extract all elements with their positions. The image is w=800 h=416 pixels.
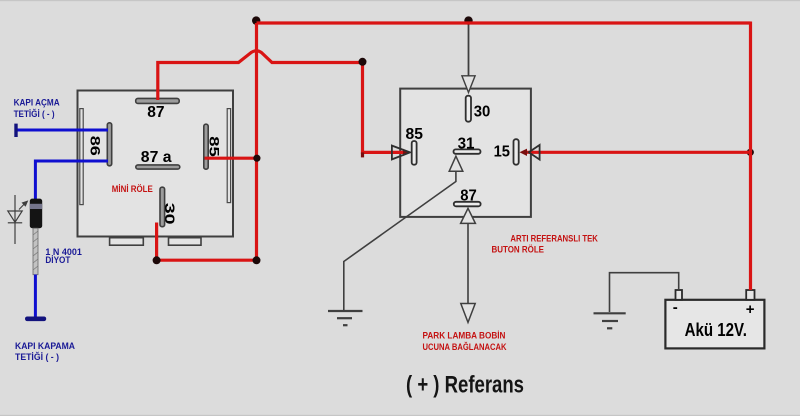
wire: feed line from top bus to K2 pin 30: [468, 23, 470, 82]
svg-text:87: 87: [460, 187, 477, 204]
svg-text:-: -: [673, 299, 678, 316]
junction dot A (top bus left): [252, 16, 260, 24]
arrow to park lamp (down): [461, 304, 475, 323]
arrowhead tip at K2 pin 15: [520, 149, 528, 156]
svg-text:+: +: [746, 301, 755, 318]
relay K1 mounting foot right: [169, 238, 202, 246]
wire: K2 pin 87 down to park lamp arrow: [467, 223, 469, 303]
junction dot F (30 loop left): [153, 256, 161, 264]
label diode: [45, 247, 82, 266]
relay K1 mounting foot left: [110, 238, 144, 246]
relay K1 right inner slot: [227, 109, 230, 203]
wire: red vertical trunk: [255, 23, 258, 260]
relay K1 pin 87 bar: [136, 98, 180, 103]
svg-text:85: 85: [406, 126, 423, 143]
wire: blue door-open trigger: [16, 129, 108, 132]
relay K1 pin 87a bar: [136, 165, 180, 169]
svg-text:KAPI KAPAMA: KAPI KAPAMA: [15, 341, 75, 352]
label park lamp: [423, 331, 507, 353]
svg-text:15: 15: [494, 144, 510, 161]
wire: red from K1 pin 30 down and right: [157, 223, 257, 261]
wire: red right drop to battery +: [749, 22, 752, 291]
wire: battery negative to ground: [610, 273, 679, 312]
svg-text:DİYOT: DİYOT: [45, 255, 70, 266]
arrow under K2 pin 87 (up): [461, 208, 476, 223]
wire: red drop to K2 pin 85: [363, 63, 407, 153]
relay K2 pin 15 bar: [514, 139, 519, 165]
wire: red from K1 pin 87 up and right with hop: [158, 51, 363, 100]
diode D1 body: [30, 199, 42, 229]
ground GND2 (battery): [594, 313, 626, 328]
junction dot E (right drop / 15 feed): [747, 149, 754, 156]
svg-text:ARTI REFERANSLI TEK: ARTI REFERANSLI TEK: [510, 233, 598, 244]
wire: red top bus: [257, 21, 751, 24]
wire: red feed to K2 pin 15: [524, 151, 751, 154]
annotation arrow to diode body: [19, 200, 28, 209]
svg-text:PARK LAMBA BOBİN: PARK LAMBA BOBİN: [423, 331, 506, 342]
relay K1 left inner slot: [80, 109, 83, 205]
wire: red from K1 pin 85 to vertical: [205, 157, 257, 160]
svg-text:31: 31: [458, 135, 475, 152]
battery BT1: [665, 290, 764, 348]
relay K1 pin 85 bar: [204, 124, 208, 169]
arrowhead tip at K2 pin 85: [403, 149, 410, 156]
svg-text:MİNİ RÖLE: MİNİ RÖLE: [112, 184, 153, 194]
label door-open trigger: [14, 98, 60, 120]
relay K2 pin 30 bar: [466, 96, 471, 122]
relay K2 pin 85 bar: [412, 141, 417, 165]
junction dot B (top bus to K2 30): [464, 16, 472, 24]
wire: blue below diode: [34, 275, 37, 318]
svg-text:86: 86: [88, 136, 104, 156]
svg-text:30: 30: [474, 104, 491, 121]
arrow under K2 pin 31 (up): [449, 156, 463, 171]
junction dot C (y62 corner): [359, 58, 367, 66]
relay K2 name label: [492, 233, 599, 255]
red wire end stub: [361, 152, 364, 157]
relay K2 body (right relay): [400, 89, 531, 217]
label door-close trigger: [15, 341, 75, 363]
terminal cap door-close: [25, 317, 46, 322]
wire: K2 armature to ground: [344, 171, 456, 311]
terminal cap door-open: [14, 124, 17, 137]
relay K2 pin 31 bar: [454, 149, 481, 153]
relay K1 body (MINI ROLE): [78, 91, 234, 237]
junction dot G (30 loop right): [253, 256, 261, 264]
svg-text:TETİĞİ ( - ): TETİĞİ ( - ): [15, 351, 59, 363]
svg-text:30: 30: [162, 203, 178, 225]
diode D1 lower lead (striped): [33, 228, 38, 275]
diode symbol (schematic): [8, 195, 22, 244]
svg-text:( + ) Referans: ( + ) Referans: [406, 372, 524, 399]
open arrow into K2 pin 15 (left): [529, 145, 540, 160]
arrow into K2 pin 30 (down): [462, 76, 475, 93]
svg-text:Akü 12V.: Akü 12V.: [685, 320, 747, 340]
svg-text:BUTON RÖLE: BUTON RÖLE: [492, 244, 545, 255]
relay K1 pin 86 bar: [107, 123, 111, 166]
svg-text:87 a: 87 a: [141, 149, 172, 166]
svg-text:85: 85: [206, 136, 222, 157]
relay K2 pin 87 bar: [454, 202, 481, 207]
open arrow into K2 pin 85 (right): [392, 146, 410, 160]
ground GND1 (center): [328, 311, 363, 325]
svg-text:KAPI AÇMA: KAPI AÇMA: [14, 98, 60, 109]
relay K1 pin 30 bar: [160, 187, 165, 227]
junction dot D (K1 85 wire): [253, 155, 260, 162]
svg-text:87: 87: [147, 104, 164, 121]
svg-text:UCUNA BAĞLANACAK: UCUNA BAĞLANACAK: [423, 341, 507, 353]
wire: blue door-close trigger: [35, 161, 108, 200]
svg-text:TETİĞİ ( - ): TETİĞİ ( - ): [14, 108, 55, 120]
